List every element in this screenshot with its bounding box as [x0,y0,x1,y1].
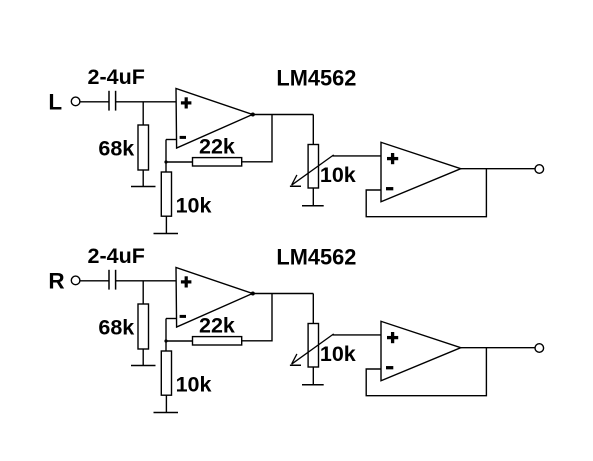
svg-text:22k: 22k [199,314,235,338]
wire [312,294,314,324]
junction [251,113,255,117]
svg-text:2-4uF: 2-4uF [88,65,145,89]
resistor R1 68k [138,125,149,170]
wire [116,280,176,282]
wire [80,280,109,282]
svg-text:L: L [48,90,62,115]
wire [366,348,486,396]
op-amp U1 LM4562 (first stage) [176,89,253,149]
junction [251,292,255,296]
wire [142,102,144,125]
potentiometer VR1 10k [290,145,334,189]
wire [165,216,167,233]
wire [165,395,167,412]
svg-text:10k: 10k [176,372,212,396]
svg-text:LM4562: LM4562 [276,65,356,90]
wire [142,349,144,366]
wire [253,293,314,295]
wire [166,139,176,141]
ground [131,365,156,367]
wire [333,155,382,157]
wire [166,161,193,163]
wire [312,115,314,145]
svg-text:22k: 22k [199,135,235,159]
wire [142,281,144,304]
op-amp U3 LM4562 (first stage) [176,268,253,328]
wire [461,168,535,170]
wire [312,188,314,206]
ground [154,233,179,235]
op-amp U2 LM4562 (output buffer) [381,142,461,201]
output terminal (L out) [535,165,544,174]
junction [164,339,167,342]
wire [366,169,486,217]
wire [142,170,144,187]
wire [461,347,535,349]
capacitor C2 2-4uF [109,270,116,290]
svg-text:10k: 10k [176,193,212,217]
wire [312,367,314,385]
svg-text:LM4562: LM4562 [276,244,356,269]
ground [302,384,324,386]
wire [166,318,176,320]
wire [116,101,176,103]
svg-text:2-4uF: 2-4uF [88,244,145,268]
svg-text:68k: 68k [98,136,134,160]
output terminal (R out) [535,344,544,353]
potentiometer VR2 10k [290,324,334,368]
input terminal R [71,276,80,285]
resistor R4 68k [138,304,149,349]
resistor R3 22k [193,158,242,166]
capacitor C1 2-4uF [109,91,116,111]
wire [242,294,272,341]
resistor R2 10k [161,172,171,216]
svg-text:R: R [48,269,64,294]
ground [154,412,179,414]
wire [80,101,109,103]
resistor R6 22k [193,337,242,345]
wire [333,334,382,336]
input terminal L [71,97,80,106]
wire [165,319,167,352]
op-amp U4 LM4562 (output buffer) [381,321,461,380]
wire [165,140,167,173]
ground [302,205,324,207]
resistor R5 10k [161,351,171,395]
wire [253,114,314,116]
ground [131,186,156,188]
wire [166,340,193,342]
svg-text:10k: 10k [320,342,356,366]
svg-text:68k: 68k [98,315,134,339]
junction [164,160,167,163]
wire [242,115,272,162]
svg-text:10k: 10k [320,163,356,187]
